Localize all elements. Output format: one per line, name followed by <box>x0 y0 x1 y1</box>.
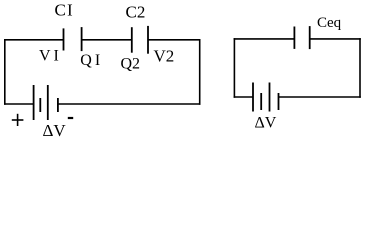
svg-text:C2: C2 <box>126 3 146 22</box>
battery left circuit: short plate 1 <box>39 98 41 112</box>
minus sign at battery negative terminal <box>68 117 73 119</box>
plus sign at battery positive terminal <box>12 114 24 126</box>
wire: right circuit bottom-left segment <box>234 96 253 98</box>
battery left circuit: long plate 2 <box>47 85 49 120</box>
wire: right circuit left border <box>233 38 235 98</box>
battery right circuit: short plate 2 <box>278 93 280 110</box>
capacitor Ceq right plate <box>309 26 311 49</box>
wire: left circuit top middle segment between C1 and C2 <box>82 39 132 41</box>
battery right circuit: long plate 2 <box>269 83 271 112</box>
wire: left circuit top-right segment <box>148 39 201 41</box>
battery left circuit: long plate 1 <box>33 85 35 120</box>
svg-text:V2: V2 <box>154 47 175 66</box>
wire: left circuit left border <box>4 39 6 105</box>
wire: right circuit top-right segment <box>310 38 361 40</box>
svg-text:CI: CI <box>55 1 74 20</box>
capacitor C1 right plate <box>81 27 83 51</box>
svg-text:VI: VI <box>39 47 62 64</box>
svg-text:Q2: Q2 <box>121 56 141 73</box>
battery right circuit: short plate 1 <box>260 93 262 110</box>
battery left circuit: short plate 2 <box>57 98 59 112</box>
wire: right circuit top-left segment <box>234 38 295 40</box>
wire: right circuit bottom-right segment <box>279 96 361 98</box>
svg-text:ΔV: ΔV <box>255 115 277 132</box>
capacitor Ceq left plate <box>293 27 295 49</box>
battery right circuit: long plate 1 <box>252 83 254 112</box>
svg-text:QI: QI <box>80 52 103 69</box>
svg-text:Ceq: Ceq <box>317 15 342 31</box>
wire: right circuit right border <box>359 38 361 98</box>
wire: left circuit bottom-right segment <box>58 103 201 105</box>
capacitor C2 left plate <box>131 27 133 53</box>
wire: left circuit top-left segment <box>4 39 64 41</box>
wire: left circuit right border <box>199 39 201 105</box>
capacitor C2 right plate <box>147 26 149 54</box>
wire: left circuit bottom-left segment <box>4 103 34 105</box>
svg-text:ΔV: ΔV <box>43 121 67 140</box>
capacitor C1 left plate <box>63 28 65 50</box>
